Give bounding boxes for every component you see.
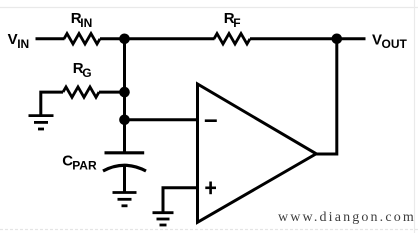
svg-text:F: F bbox=[233, 16, 240, 30]
node junction B (output node) bbox=[332, 34, 343, 45]
svg-text:IN: IN bbox=[80, 16, 92, 30]
wire cap to ground bbox=[123, 167, 126, 194]
label RF bbox=[224, 10, 241, 30]
node VIN label bbox=[8, 31, 30, 51]
node junction RG bbox=[119, 87, 130, 98]
frame line bottom (dashed) bbox=[0, 229, 418, 231]
svg-text:IN: IN bbox=[17, 37, 29, 51]
capacitor CPAR top plate bbox=[105, 151, 145, 154]
ground (RG) bbox=[29, 116, 54, 129]
resistor RG bbox=[63, 87, 99, 97]
label RG bbox=[73, 60, 92, 80]
svg-text:V: V bbox=[8, 31, 18, 48]
capacitor CPAR curved plate bbox=[103, 165, 146, 171]
op-amp U1 triangle bbox=[198, 84, 317, 222]
wire to inverting input bbox=[125, 118, 198, 121]
resistor RIN bbox=[64, 34, 100, 44]
node VOUT label bbox=[372, 31, 408, 51]
frame line right bbox=[414, 0, 416, 233]
svg-text:G: G bbox=[82, 66, 91, 80]
ground (noninverting input) bbox=[153, 213, 174, 225]
wire output to feedback node bbox=[316, 39, 337, 154]
wire noninverting input + stem bbox=[163, 188, 198, 212]
frame line top bbox=[0, 7, 418, 9]
resistor RF bbox=[214, 34, 250, 44]
ground (CPAR) bbox=[113, 193, 137, 206]
svg-text:V: V bbox=[372, 31, 382, 48]
label CPAR bbox=[62, 153, 97, 173]
wire RF to VOUT bbox=[250, 37, 366, 40]
wire VIN to RIN bbox=[36, 37, 65, 40]
node junction inverting branch bbox=[119, 115, 130, 126]
wire RG to node bbox=[99, 91, 125, 94]
wire RIN to RF bbox=[100, 37, 215, 40]
wire RG left + stem bbox=[41, 92, 63, 116]
svg-text:PAR: PAR bbox=[72, 158, 97, 172]
svg-text:OUT: OUT bbox=[382, 37, 408, 51]
svg-text:www.diangon.com: www.diangon.com bbox=[278, 210, 416, 225]
op-amp minus sign bbox=[205, 119, 217, 122]
wire summing node vertical bbox=[123, 39, 126, 153]
node junction A (summing node top) bbox=[119, 34, 130, 45]
label RIN bbox=[71, 10, 93, 30]
op-amp plus sign bbox=[205, 182, 216, 195]
